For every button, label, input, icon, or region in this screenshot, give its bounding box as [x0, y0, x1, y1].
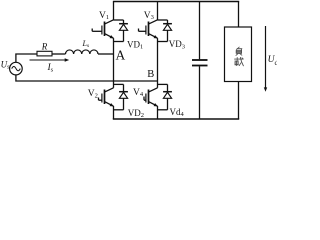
capacitor: [192, 2, 208, 120]
svg-text:Us: Us: [1, 59, 11, 70]
wire top-right drop to load: [238, 2, 240, 28]
svg-text:VD2: VD2: [128, 108, 144, 119]
svg-text:R: R: [41, 42, 48, 52]
wire R to L: [52, 53, 66, 55]
svg-text:VD1: VD1: [127, 39, 143, 50]
svg-text:B: B: [147, 69, 154, 80]
diode VD1: [114, 20, 128, 42]
label V3: [144, 11, 154, 21]
wire bottom DC rail: [113, 118, 239, 120]
load box: [225, 27, 252, 82]
diode Vd4: [158, 84, 172, 109]
label Is: [47, 63, 54, 73]
wire V4 emitter to rail: [157, 106, 159, 119]
node A: [116, 47, 126, 62]
label V2: [88, 89, 98, 99]
label Ud: [268, 55, 279, 67]
wire right leg (V3 emitter to V4 collector): [157, 38, 159, 88]
label V1: [99, 11, 109, 21]
transistor V4: [144, 88, 158, 107]
label VD1: [127, 39, 143, 50]
svg-text:Vd4: Vd4: [170, 107, 185, 118]
svg-text:A: A: [116, 47, 126, 62]
label Ls: [82, 39, 90, 49]
wire V1 collector riser: [114, 2, 124, 21]
svg-text:V2: V2: [88, 89, 98, 99]
wire load bottom lead: [238, 82, 240, 120]
transistor V3: [139, 20, 158, 39]
label VD2: [128, 108, 144, 119]
svg-text:Ud: Ud: [268, 55, 277, 67]
node B: [147, 69, 154, 80]
diode VD3: [158, 20, 172, 42]
transistor V2: [99, 88, 114, 107]
svg-text:Is: Is: [47, 63, 54, 73]
wire top DC rail: [113, 1, 239, 3]
diode VD2: [114, 84, 128, 109]
wire L to node A: [98, 53, 114, 55]
label Us: [1, 59, 11, 70]
wire V3 collector riser: [158, 2, 168, 21]
arrow Is: [30, 58, 70, 61]
load text zai: [235, 57, 244, 65]
label V4: [133, 88, 144, 98]
label Vd4: [170, 107, 185, 118]
load text fu: [236, 47, 242, 55]
label VD3: [169, 39, 185, 50]
arrow Ud: [264, 26, 267, 92]
svg-text:Ls: Ls: [82, 39, 90, 49]
wire source top lead: [16, 54, 37, 62]
wire V2 emitter to rail: [113, 106, 115, 119]
transistor V1: [92, 20, 114, 39]
resistor R: [37, 51, 52, 56]
svg-text:VD3: VD3: [169, 39, 185, 50]
wire left leg (V1 emitter to V2 collector): [113, 38, 115, 88]
label R: [41, 42, 48, 52]
inductor Ls: [66, 50, 98, 54]
wire source bottom lead: [16, 75, 158, 81]
svg-text:V1: V1: [99, 11, 109, 21]
svg-text:V3: V3: [144, 11, 154, 21]
AC source Us circle: [10, 62, 23, 75]
svg-text:V4: V4: [133, 88, 144, 98]
